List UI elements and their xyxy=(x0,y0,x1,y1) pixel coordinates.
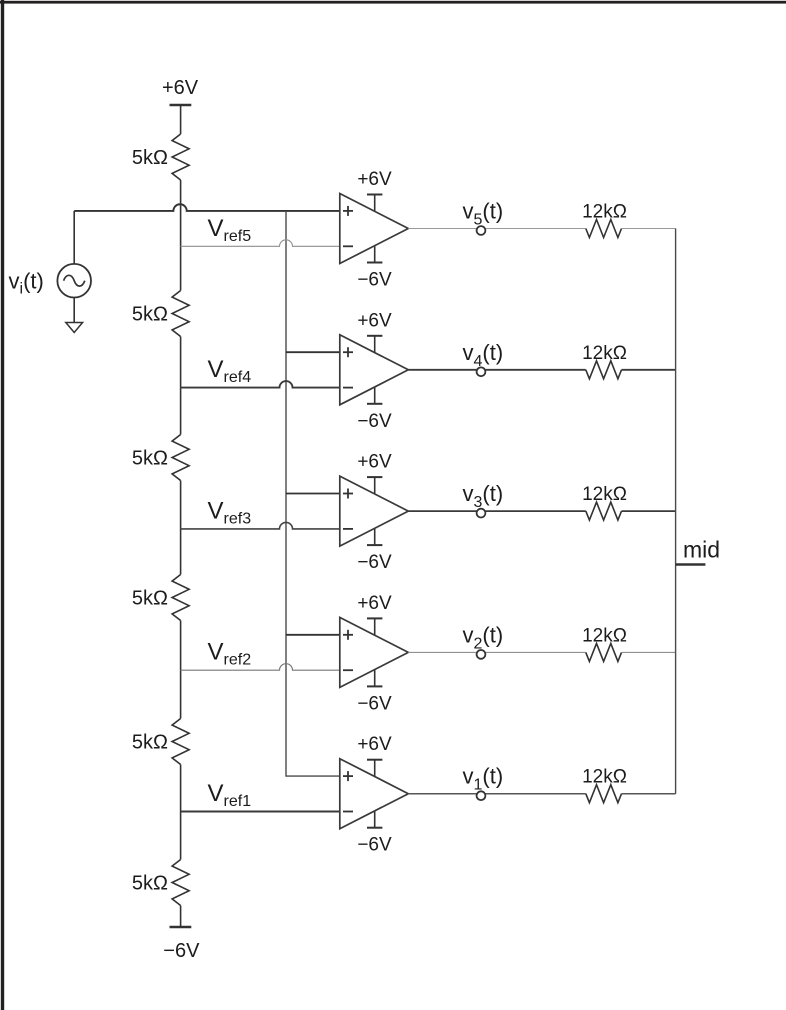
svg-text:5kΩ: 5kΩ xyxy=(132,873,168,895)
node v1(t) (output terminal) xyxy=(477,791,486,800)
wire U4 output to 12k resistor xyxy=(408,651,586,653)
U4 - input marking xyxy=(343,669,353,671)
resistor R3 5kΩ (ladder) xyxy=(172,435,189,481)
wire 12k resistor to output bus (row v5) xyxy=(622,228,676,230)
svg-text:Vref4: Vref4 xyxy=(208,356,252,386)
+6V supply rail (ladder top) xyxy=(162,77,199,105)
resistor R1 5kΩ (ladder) xyxy=(172,134,189,180)
op-amp U3 -6V supply xyxy=(357,526,392,573)
source vi(t) (AC source) xyxy=(57,264,91,298)
resistor 12kΩ (row v1) xyxy=(586,785,622,803)
U3 - input marking xyxy=(343,528,353,530)
wire ladder Vref3 node to R4 xyxy=(180,529,182,575)
resistor R6 5kΩ (ladder) xyxy=(172,860,189,906)
svg-text:mid: mid xyxy=(683,537,720,563)
svg-text:+6V: +6V xyxy=(357,593,392,614)
U5 - input marking xyxy=(343,811,353,813)
svg-text:+6V: +6V xyxy=(162,77,199,99)
op-amp U4 +6V supply xyxy=(357,593,392,638)
op-amp U3 +6V supply xyxy=(357,452,392,497)
op-amp U2 (comparator, output v4) xyxy=(340,335,409,405)
wire vi bus to U4 noninverting input xyxy=(286,634,340,636)
wire ladder Vref1 node to R6 xyxy=(180,812,182,860)
wire 12k resistor to output bus (row v1) xyxy=(622,793,676,795)
svg-text:5kΩ: 5kΩ xyxy=(132,732,168,754)
resistor 12kΩ (row v2) xyxy=(586,643,622,661)
resistor R5 5kΩ (ladder) xyxy=(172,719,189,765)
svg-text:+6V: +6V xyxy=(357,734,392,755)
svg-text:+6V: +6V xyxy=(357,310,392,331)
-6V supply rail (ladder bottom) xyxy=(163,927,200,962)
svg-text:−6V: −6V xyxy=(357,270,392,291)
wire ladder Vref4 node to R3 xyxy=(180,388,182,435)
wire ladder Vref5 node to R2 xyxy=(180,246,182,290)
U3 + input marking xyxy=(343,489,353,499)
svg-text:12kΩ: 12kΩ xyxy=(582,767,627,788)
svg-text:12kΩ: 12kΩ xyxy=(582,202,627,223)
U5 + input marking xyxy=(343,771,353,781)
wire vi(t) source lead (vertical) xyxy=(73,211,75,264)
svg-text:+6V: +6V xyxy=(357,452,392,473)
wire +6V rail to R1 xyxy=(180,105,182,134)
svg-text:v1(t): v1(t) xyxy=(463,764,504,794)
U1 - input marking xyxy=(343,245,353,247)
U2 + input marking xyxy=(343,347,353,357)
node v5(t) (output terminal) xyxy=(477,226,486,235)
resistor R4 5kΩ (ladder) xyxy=(172,575,189,621)
wire U2 output to 12k resistor xyxy=(408,369,586,371)
wire 12k resistor to output bus (row v4) xyxy=(622,369,676,371)
svg-text:Vref1: Vref1 xyxy=(208,780,252,810)
wire ladder R3 to Vref3 node xyxy=(180,481,182,529)
resistor 12kΩ (row v4) xyxy=(586,361,622,379)
wire Vref1 node to U5 inverting input xyxy=(181,811,340,813)
svg-text:v5(t): v5(t) xyxy=(463,199,504,229)
svg-text:12kΩ: 12kΩ xyxy=(582,484,627,505)
op-amp U4 (comparator, output v2) xyxy=(340,617,409,687)
resistor 12kΩ (row v3) xyxy=(586,502,622,520)
wire ladder R2 to Vref4 node xyxy=(180,337,182,388)
node v3(t) (output terminal) xyxy=(477,509,486,518)
wire vi bus to U3 noninverting input xyxy=(286,493,340,495)
wire vi(t) to U1 noninverting input (hops over ladder) xyxy=(74,204,340,211)
op-amp U1 (comparator, output v5) xyxy=(340,194,409,264)
wire ladder R5 to Vref1 node xyxy=(180,765,182,812)
svg-text:−6V: −6V xyxy=(163,940,200,962)
wire Vref5 node to U1 inverting input (hops over vi bus) xyxy=(181,240,340,246)
svg-text:vi(t): vi(t) xyxy=(9,269,44,298)
svg-text:+6V: +6V xyxy=(357,169,392,190)
wire ladder R1 to Vref5 node xyxy=(180,180,182,246)
wire ladder Vref2 node to R5 xyxy=(180,670,182,718)
wire ladder R6 to -6V rail xyxy=(180,906,182,928)
wire 12k resistor to output bus (row v3) xyxy=(622,510,676,512)
op-amp U1 -6V supply xyxy=(357,244,392,291)
svg-text:v4(t): v4(t) xyxy=(463,340,504,370)
svg-text:5kΩ: 5kΩ xyxy=(132,588,168,610)
svg-text:Vref3: Vref3 xyxy=(208,497,252,527)
op-amp U2 -6V supply xyxy=(357,385,392,432)
op-amp U4 -6V supply xyxy=(357,667,392,714)
wire Vref2 node to U4 inverting input (hops over vi bus) xyxy=(181,664,340,671)
U2 - input marking xyxy=(343,387,353,389)
wire U3 output to 12k resistor xyxy=(408,510,586,512)
svg-text:Vref2: Vref2 xyxy=(208,639,252,669)
op-amp U2 +6V supply xyxy=(357,310,392,355)
svg-text:−6V: −6V xyxy=(357,693,392,714)
svg-text:12kΩ: 12kΩ xyxy=(582,625,627,646)
svg-text:5kΩ: 5kΩ xyxy=(132,147,168,169)
wire vi bus to U2 noninverting input xyxy=(286,351,340,353)
svg-text:v2(t): v2(t) xyxy=(463,622,504,652)
svg-text:v3(t): v3(t) xyxy=(463,481,504,511)
svg-text:−6V: −6V xyxy=(357,552,392,573)
node v4(t) (output terminal) xyxy=(477,367,486,376)
ground xyxy=(66,298,83,333)
wire U5 output to 12k resistor xyxy=(408,793,586,795)
wire Vref3 node to U3 inverting input (hops over vi bus) xyxy=(181,522,340,528)
op-amp U5 +6V supply xyxy=(357,734,392,779)
U1 + input marking xyxy=(343,206,353,216)
wire ladder R4 to Vref2 node xyxy=(180,621,182,671)
wire output bus (vertical) xyxy=(675,229,677,794)
svg-text:5kΩ: 5kΩ xyxy=(132,304,168,326)
wire vi bus (vertical, to + inputs; corner into U5) xyxy=(286,211,340,776)
svg-text:−6V: −6V xyxy=(357,835,392,856)
wire U1 output to 12k resistor xyxy=(408,228,586,230)
node v2(t) (output terminal) xyxy=(477,650,486,659)
op-amp U5 -6V supply xyxy=(357,809,392,856)
resistor 12kΩ (row v5) xyxy=(586,220,622,238)
wire Vref4 node to U2 inverting input (hops over vi bus) xyxy=(181,381,340,388)
svg-text:−6V: −6V xyxy=(357,411,392,432)
svg-text:5kΩ: 5kΩ xyxy=(132,448,168,470)
op-amp U5 (comparator, output v1) xyxy=(340,759,409,829)
mid output stub xyxy=(676,563,706,565)
resistor R2 5kΩ (ladder) xyxy=(172,291,189,337)
U4 + input marking xyxy=(343,630,353,640)
svg-text:Vref5: Vref5 xyxy=(208,215,252,245)
op-amp U1 +6V supply xyxy=(357,169,392,214)
wire 12k resistor to output bus (row v2) xyxy=(622,651,676,653)
svg-text:12kΩ: 12kΩ xyxy=(582,343,627,364)
op-amp U3 (comparator, output v3) xyxy=(340,476,409,546)
